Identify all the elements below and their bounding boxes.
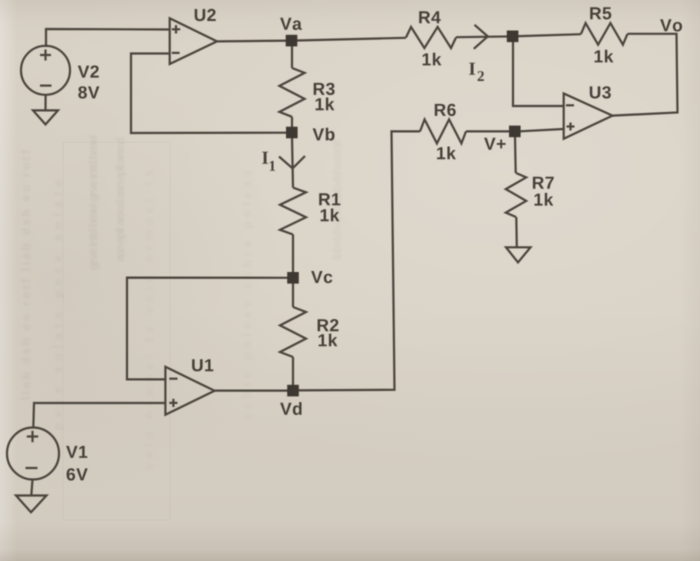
svg-text:cchre poleas cchre poleas: cchre poleas cchre poleas [240, 170, 254, 420]
svg-text:liab dsh eo rotf liab dsh eo r: liab dsh eo rotf liab dsh eo rotf [19, 149, 33, 400]
svg-text:veid nrmoel ts veid nrmoel ts: veid nrmoel ts veid nrmoel ts [142, 170, 156, 470]
svg-text:grve intd bmei grve intd bmei: grve intd bmei grve intd bmei [86, 135, 100, 270]
svg-text:asn eplt arecd asn eplt arecd: asn eplt arecd asn eplt arecd [113, 137, 127, 262]
svg-text:pece solate pece solate: pece solate pece solate [51, 180, 65, 430]
